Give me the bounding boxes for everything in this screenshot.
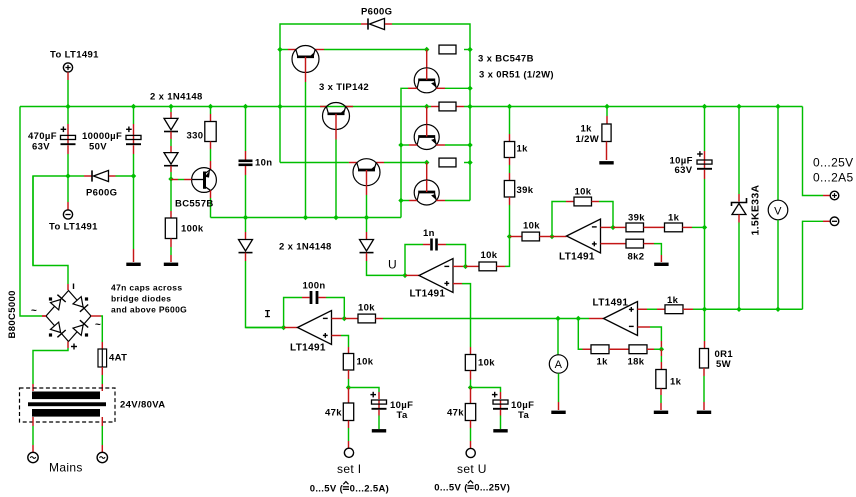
node output rail junction x=704.5: [702, 307, 707, 349]
transistor Q1 TIP142: [292, 46, 319, 218]
svg-text:39k: 39k: [628, 213, 645, 224]
svg-text:1k: 1k: [668, 213, 680, 224]
svg-text:10k: 10k: [478, 358, 495, 369]
node output rail junction x=739: [736, 307, 741, 312]
terminal output +: [830, 191, 839, 200]
label 10k (error fb): [575, 187, 592, 198]
label 39k (x509): [517, 185, 534, 196]
svg-text:1n: 1n: [423, 228, 435, 239]
resistor R 0R51 (2): [439, 102, 456, 111]
wire 10000uF line to ground: [133, 176, 135, 262]
wire U feedback top: [405, 245, 430, 276]
label 1k (to gnd): [670, 377, 682, 388]
svg-text:10k: 10k: [357, 357, 374, 368]
svg-text:10000µF: 10000µF: [82, 131, 122, 142]
svg-text:63V: 63V: [675, 165, 693, 176]
label 10uF Ta (I): [390, 400, 413, 421]
wire output rail y=309.25: [705, 308, 803, 310]
terminal set U: [466, 448, 475, 457]
terminal + To LT1491: [63, 63, 72, 107]
node 1k/10uF junction: [702, 225, 707, 310]
label 2 x 1N4148 (bottom pair): [279, 242, 332, 253]
svg-text:1.5KE33A: 1.5KE33A: [750, 185, 762, 236]
label 39k (error): [628, 213, 645, 224]
wire U plus input: [453, 284, 471, 355]
diode D4 1N4148: [360, 218, 374, 262]
svg-text:0...2.5A): 0...2.5A): [350, 484, 390, 495]
svg-text:10n: 10n: [255, 158, 272, 169]
svg-text:8k2: 8k2: [628, 252, 645, 263]
resistor R 330: [205, 107, 216, 162]
resistor R 100k: [165, 211, 176, 262]
svg-text:LT1491: LT1491: [410, 289, 446, 300]
resistor R 1k 1/2W: [602, 107, 611, 161]
fuse F1 4AT: [98, 349, 107, 391]
ground (below 1k): [654, 411, 668, 414]
svg-text:LT1491: LT1491: [290, 343, 326, 354]
capacitor C7 10uF Ta (U): [492, 392, 508, 429]
label 10k (U out): [481, 250, 498, 261]
label 10k (I out): [358, 303, 375, 314]
resistor R 47k (U): [465, 388, 475, 449]
wire I command line y=318.5: [383, 316, 604, 321]
label I: [265, 310, 270, 317]
svg-text:63V: 63V: [32, 142, 50, 153]
label 100n: [303, 281, 326, 292]
wire D4 to U amp input: [367, 261, 406, 275]
node output rail junction x=778: [775, 307, 780, 312]
resistor R 10k (U+): [465, 355, 475, 388]
wire error amp feedback: [552, 202, 574, 237]
svg-text:0...5V (: 0...5V (: [434, 483, 468, 494]
svg-text:and above P600G: and above P600G: [111, 305, 187, 315]
svg-text:V: V: [774, 205, 782, 217]
wire I plus input: [332, 336, 349, 354]
wire U minus node: [453, 264, 479, 269]
label 10uF Ta (U): [511, 400, 534, 421]
svg-text:LT1491: LT1491: [593, 298, 629, 309]
wire bridge right to fuse: [101, 316, 102, 349]
capacitor C5 100n: [311, 291, 344, 319]
capacitor C8 10uF 63V: [697, 107, 712, 228]
diode D2 1N4148: [164, 146, 178, 179]
resistor R 39k (x509): [504, 165, 514, 237]
terminal set I: [344, 448, 353, 457]
op-amp U3 LT1491 (I): [298, 311, 332, 345]
svg-text:4AT: 4AT: [109, 353, 127, 364]
bridge rectifier B80C5000: [31, 284, 101, 392]
label 330: [187, 131, 204, 142]
svg-text:B80C5000: B80C5000: [7, 290, 18, 338]
svg-text:A: A: [555, 359, 563, 371]
wire left branch from bus to bridge: [20, 107, 47, 317]
svg-text:0...25V: 0...25V: [813, 156, 853, 170]
label 10n: [255, 158, 272, 169]
svg-text:BC557B: BC557B: [175, 199, 214, 210]
svg-text:set I: set I: [337, 462, 361, 476]
resistor R 1k (output+): [638, 305, 705, 314]
svg-text:50V: 50V: [89, 142, 107, 153]
svg-text:2 x 1N4148: 2 x 1N4148: [279, 242, 332, 253]
diode D1 1N4148: [164, 107, 178, 147]
wire +V bus (top horizontal rail y=106.5): [20, 106, 803, 108]
label 8k2: [628, 252, 645, 263]
label 1.5KE33A: [750, 185, 762, 236]
resistor R 1k (divider): [591, 345, 609, 354]
svg-text:24V/80VA: 24V/80VA: [120, 400, 165, 411]
label 100k: [181, 224, 204, 235]
svg-text:0...2A5: 0...2A5: [813, 171, 853, 185]
label 1n: [423, 228, 435, 239]
wire transformer secondary leads: [33, 417, 102, 452]
ground (Ta cap U): [493, 429, 507, 432]
label 3 x TIP142: [319, 82, 369, 93]
capacitor C1 470uF 63V: [61, 107, 76, 177]
svg-text:set U: set U: [457, 462, 487, 476]
ground (below 8k2): [654, 263, 668, 266]
svg-text:~: ~: [31, 306, 37, 317]
svg-text:3 x TIP142: 3 x TIP142: [319, 82, 369, 93]
svg-text:P600G: P600G: [361, 7, 392, 18]
terminal mains L: [28, 452, 38, 462]
svg-text:47k: 47k: [447, 408, 464, 419]
svg-text:1k: 1k: [670, 377, 682, 388]
wire output minus to divider: [638, 327, 662, 349]
label 10k (I+): [357, 357, 374, 368]
wire set I to cap: [349, 388, 380, 400]
wire TIP142 Q1 line y=49.5: [280, 49, 427, 51]
label LT1491 (U): [410, 289, 446, 300]
transistor Q2 TIP142: [323, 103, 350, 218]
capacitor C3 10n: [239, 107, 253, 218]
label 18k: [628, 357, 645, 368]
label To LT1491 (bottom): [49, 222, 98, 233]
label LT1491 (error): [559, 252, 595, 263]
svg-text:~: ~: [95, 320, 101, 331]
svg-text:10k: 10k: [358, 303, 375, 314]
resistor R 10k (U out): [479, 237, 510, 271]
resistor R 10k (I+): [343, 354, 353, 388]
node divider junction: [659, 347, 664, 352]
node bus junction dots: [65, 104, 780, 109]
wire output plus: [803, 107, 830, 196]
terminal - To LT1491: [63, 176, 72, 219]
svg-text:1/2W: 1/2W: [576, 134, 600, 145]
ground (Ta cap I): [372, 429, 386, 432]
svg-text:470µF: 470µF: [28, 131, 57, 142]
node error minus junction: [601, 225, 627, 230]
svg-text:2 x 1N4148: 2 x 1N4148: [150, 92, 203, 103]
label 0...2A5: [813, 171, 853, 185]
resistor R 0R51 (3): [439, 158, 470, 167]
label BC557B: [175, 199, 214, 210]
label 4AT: [109, 353, 127, 364]
op-amp U2 LT1491 (U): [419, 259, 453, 293]
label 10000uF 50V: [82, 131, 122, 153]
label 0...5V (=0...2.5A): [310, 482, 389, 495]
svg-text:1k: 1k: [597, 357, 609, 368]
resistor R 18k: [609, 345, 661, 354]
wire TIP142 Q3 line y=162.5: [280, 162, 427, 164]
svg-text:P600G: P600G: [86, 188, 117, 199]
diode D5 1.5KE33A: [732, 107, 747, 310]
label 2 x 1N4148 (top pair): [150, 92, 203, 103]
label 1k (x509): [517, 144, 529, 155]
label 47k (I): [325, 408, 342, 419]
label 10k (sum input): [523, 221, 540, 232]
diode D_P600G (top): [361, 18, 392, 29]
node set I junction: [346, 385, 351, 390]
meter V: [768, 107, 788, 310]
label set I: [337, 462, 361, 476]
terminal output -: [830, 217, 839, 226]
op-amp U5 LT1491 (output): [604, 302, 638, 336]
svg-text:Mains: Mains: [49, 461, 83, 475]
diode D3 1N4148: [239, 218, 253, 262]
resistor R 1k (x509): [504, 107, 514, 166]
svg-text:1k: 1k: [667, 295, 679, 306]
wire negative rail y=176: [33, 173, 136, 265]
svg-text:10k: 10k: [575, 187, 592, 198]
transistor Q5 BC547B: [408, 47, 445, 93]
label P600G (top): [361, 7, 392, 18]
ground (below 100k): [164, 263, 178, 266]
wire I minus node: [332, 316, 351, 321]
ground (below A meter): [551, 411, 565, 414]
svg-text:47n caps across: 47n caps across: [111, 283, 182, 293]
svg-text:0...5V (: 0...5V (: [310, 484, 344, 495]
label 10uF 63V: [670, 156, 693, 177]
resistor R 1k (to gnd): [656, 349, 666, 410]
transistor Q6 BC547B: [401, 107, 470, 150]
ground (below 0R1): [697, 411, 711, 414]
resistor R 10k (sum input): [507, 232, 544, 241]
label 47n caps note: [111, 283, 187, 315]
svg-text:Ta: Ta: [518, 410, 529, 421]
label LT1491 (output): [593, 298, 629, 309]
svg-text:0...25V): 0...25V): [474, 483, 510, 494]
transformer T1 24V/80VA: [20, 388, 116, 422]
label 1k (output+): [667, 295, 679, 306]
wire emitter rail corner: [400, 217, 402, 219]
node sum junction: [544, 234, 567, 239]
wire set U to cap: [471, 388, 501, 400]
op-amp U4 LT1491 (error): [567, 219, 601, 253]
svg-text:U: U: [388, 258, 397, 272]
resistor R 0R51 (1): [439, 45, 470, 54]
resistor R 39k (error): [626, 223, 644, 232]
capacitor C6 10uF Ta (I): [370, 392, 386, 429]
label 1k 1/2W: [576, 124, 600, 146]
svg-text:Ta: Ta: [397, 410, 408, 421]
svg-text:10k: 10k: [481, 250, 498, 261]
label B80C5000: [7, 290, 18, 338]
wire emitter Q5 right: [445, 87, 470, 89]
label 0...25V: [813, 156, 853, 170]
capacitor C4 1n: [432, 239, 466, 267]
transistor Q4 BC557B: [171, 161, 216, 218]
svg-text:330: 330: [187, 131, 204, 142]
label 0...5V (=0...25V): [434, 481, 510, 494]
label 47k (U): [447, 408, 464, 419]
node BC557 base junction: [168, 176, 173, 211]
label Mains: [49, 461, 83, 475]
wire emitter rail y=217.5: [211, 215, 402, 220]
node U amp input junction: [402, 273, 419, 278]
label LT1491 (I): [290, 343, 326, 354]
label 1k (divider): [597, 357, 609, 368]
label P600G (left): [86, 188, 117, 199]
svg-text:39k: 39k: [517, 185, 534, 196]
label 470uF 63V: [28, 131, 57, 153]
capacitor C2 10000uF 50V: [126, 107, 141, 177]
svg-text:5W: 5W: [716, 359, 731, 370]
wire bus to bridge minus: [33, 176, 68, 290]
svg-text:3 x BC547B: 3 x BC547B: [478, 54, 534, 65]
svg-text:10k: 10k: [523, 221, 540, 232]
resistor R 10k (I out): [350, 314, 383, 323]
svg-text:LT1491: LT1491: [559, 252, 595, 263]
label 24V/80VA: [120, 400, 165, 411]
label 1k (error): [668, 213, 680, 224]
svg-text:bridge diodes: bridge diodes: [111, 294, 171, 304]
svg-text:18k: 18k: [628, 357, 645, 368]
svg-text:3 x 0R51 (1/2W): 3 x 0R51 (1/2W): [479, 70, 554, 81]
resistor R 8k2: [601, 239, 662, 262]
label set U: [457, 462, 487, 476]
transistor Q7 BC547B: [401, 160, 470, 205]
svg-text:47k: 47k: [325, 408, 342, 419]
label 3 x BC547B: [478, 54, 534, 65]
resistor R 10k (error fb): [574, 197, 613, 227]
svg-text:100n: 100n: [303, 281, 326, 292]
label To LT1491 (top): [50, 50, 99, 61]
svg-text:To LT1491: To LT1491: [49, 222, 98, 233]
label 10k (U+): [478, 358, 495, 369]
wire D3 to I amp input: [246, 261, 284, 328]
resistor R 0R1 5W: [700, 349, 709, 411]
node set U junction: [468, 385, 473, 390]
label 3 x 0R51 (1/2W): [479, 70, 554, 81]
svg-text:1k: 1k: [581, 124, 593, 135]
diode D_P600G (left): [84, 170, 116, 181]
resistor R 47k (I): [343, 388, 353, 449]
label U: [388, 258, 397, 272]
node I amp input junction: [246, 325, 298, 330]
label 0R1 5W: [715, 349, 734, 370]
meter A: [549, 319, 567, 411]
ground (below 10000uF line): [126, 263, 140, 266]
wire P600G top loop: [277, 24, 472, 201]
ground (below 1k 1/2W): [599, 161, 613, 164]
wire divider from I line: [578, 319, 591, 350]
svg-text:1k: 1k: [517, 144, 529, 155]
svg-text:100k: 100k: [181, 224, 204, 235]
transistor Q3 TIP142: [353, 159, 380, 218]
wire emitter net left vertical: [398, 88, 408, 217]
wire I feedback top: [284, 298, 310, 328]
svg-text:To LT1491: To LT1491: [50, 50, 99, 61]
resistor R 1k (error): [644, 223, 705, 232]
wire output minus: [803, 221, 830, 309]
terminal mains N: [97, 452, 107, 462]
